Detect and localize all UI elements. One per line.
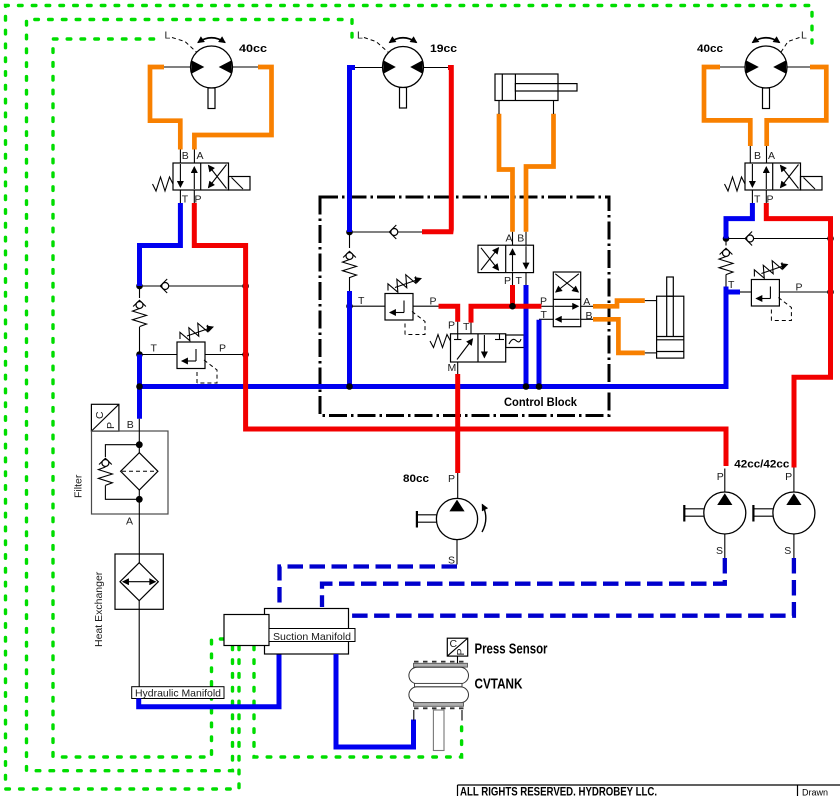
Suction Manifold label box — [269, 629, 355, 643]
hydraulic motor 40cc — [697, 29, 807, 108]
motor shaft — [208, 88, 215, 109]
svg-text:P: P — [796, 282, 803, 294]
svg-text:Drawn: Drawn — [802, 788, 828, 796]
CVTANK upper bellows — [409, 667, 469, 683]
hose: main return line (blue) — [140, 287, 727, 387]
hose: right motor loop B side (orange) — [704, 67, 750, 146]
svg-text:S: S — [784, 545, 791, 557]
hose: 19cc riser to main return (blue) — [347, 291, 352, 387]
directional valve V5 (vertical cylinder) — [553, 272, 580, 327]
drain line L1 (left 40cc motor to suction manifold small box) — [53, 39, 224, 757]
C1 port lines — [498, 101, 500, 115]
wire: right spring-check riser — [725, 239, 727, 246]
svg-text:Suction Manifold: Suction Manifold — [273, 631, 351, 643]
svg-text:P: P — [219, 343, 226, 355]
svg-text:B: B — [754, 150, 761, 162]
svg-text:P: P — [430, 296, 437, 308]
hose: V5 A to vertical cylinder top (orange) — [593, 301, 645, 307]
suction manifold box — [265, 609, 349, 655]
CVTANK top bolt marks — [414, 661, 466, 663]
hose: left motor loop A side (orange) — [194, 67, 271, 150]
svg-text:T: T — [151, 343, 158, 355]
spring check valve SC1 (left) — [133, 300, 147, 326]
hose: 19cc motor right down (red) — [422, 68, 451, 232]
wire: heat exchanger to hydraulic manifold — [138, 601, 140, 687]
CVTANK middle ring — [415, 683, 463, 686]
svg-text:B: B — [182, 150, 189, 162]
pressure sensor CP2 (CVTANK) — [447, 638, 467, 656]
svg-text:B: B — [127, 419, 134, 431]
node: RV3 P junction on red — [827, 289, 834, 296]
hose: RV3 T stub (blue) — [726, 290, 740, 295]
wire: left 40cc motor port lines — [164, 66, 191, 68]
hose: horizontal cylinder right port to V3 B (orange) — [526, 114, 554, 232]
V1 port stub lines — [179, 150, 181, 164]
hose: suction manifold to CVTANK (blue) — [336, 654, 414, 747]
hose: V1 T to left riser (blue) — [140, 203, 181, 286]
svg-text:T: T — [754, 193, 761, 205]
check valve CV2 line (19cc circuit) — [350, 231, 423, 233]
node: main return / V3 T — [523, 383, 530, 390]
node: red/check junction left — [242, 283, 249, 290]
hose: V5 B to vertical cylinder bottom (orange) — [593, 319, 645, 353]
svg-text:P: P — [785, 471, 792, 483]
node: RV1 T junction — [136, 351, 143, 358]
control block dash-dot border — [320, 197, 609, 416]
hydraulic motor 40cc — [165, 29, 268, 108]
node: main return / V5 T — [536, 383, 543, 390]
svg-text:P: P — [455, 648, 467, 655]
hose: right motor loop A side (orange) — [767, 67, 827, 146]
svg-text:B: B — [586, 310, 593, 322]
CVTANK lower bellows — [409, 687, 469, 703]
svg-text:T: T — [516, 275, 523, 287]
heat exchanger HX1 — [115, 554, 163, 609]
V2 port stub lines — [749, 146, 751, 163]
svg-text:M: M — [448, 362, 457, 374]
svg-text:P: P — [448, 320, 455, 332]
check valve CV1 line (left circuit) — [140, 285, 246, 287]
drain line CVTANK (suction manifold to CVTANK bottom port) — [254, 646, 462, 757]
svg-text:Press Sensor: Press Sensor — [475, 641, 548, 658]
hose: V3 T to main return (blue) — [524, 285, 529, 387]
node: main return at left corner — [136, 383, 143, 390]
svg-text:L: L — [801, 29, 807, 41]
wire: filter A to heat exchanger — [138, 514, 140, 563]
check valve CV3 line (right circuit) — [726, 238, 831, 240]
bidirectional rotation arrow — [753, 38, 780, 43]
CVTANK bottom bolt marks — [414, 707, 464, 709]
hydraulic motor 19cc — [357, 29, 457, 108]
C2 port lines — [645, 300, 657, 302]
svg-text:Control Block: Control Block — [504, 397, 578, 409]
svg-text:P: P — [717, 471, 724, 483]
node: 19cc blue junction — [346, 229, 353, 236]
svg-text:A: A — [126, 516, 133, 528]
proportional valve V4 (pump control, port M) — [430, 334, 524, 362]
node: RV2 T junction on blue — [346, 303, 353, 310]
drain dashed connection — [781, 38, 800, 53]
title block — [458, 784, 840, 796]
hose: hydraulic manifold to suction manifold (blue) — [139, 654, 279, 707]
node: main return / 19cc riser — [346, 383, 353, 390]
hose: left riser relief to filter B (blue) — [137, 355, 142, 419]
svg-text:C: C — [94, 411, 106, 419]
svg-text:S: S — [716, 545, 723, 557]
RV1 T/P wires and labels — [140, 354, 178, 356]
node: RV1 P junction on red — [242, 351, 249, 358]
svg-text:Filter: Filter — [73, 474, 85, 498]
relief valve RV1 (left circuit) — [177, 320, 217, 383]
hydraulic cylinder C1 (horizontal) — [495, 74, 577, 101]
relief valve RV3 (right circuit) — [751, 257, 791, 320]
svg-text:ALL RIGHTS RESERVED. HYDROBEY: ALL RIGHTS RESERVED. HYDROBEY LLC. — [460, 784, 657, 796]
motor shaft — [400, 88, 407, 109]
node: pressure gallery junction — [509, 303, 516, 310]
hose: V2 T to right riser (blue) — [726, 203, 752, 239]
svg-text:T: T — [463, 321, 470, 333]
svg-text:P: P — [504, 275, 511, 287]
svg-text:A: A — [197, 150, 204, 162]
drain dashed connection — [172, 38, 197, 53]
P1 rotation arrow — [482, 505, 486, 533]
svg-text:T: T — [728, 279, 735, 291]
svg-text:P: P — [105, 422, 117, 429]
svg-text:Hydraulic Manifold: Hydraulic Manifold — [135, 687, 221, 699]
hose: V4 M to 80cc pump P (red) — [455, 374, 460, 473]
node: right red junction — [827, 235, 834, 242]
hose: V5 T to main return (blue) — [537, 320, 542, 387]
solenoid valve V3 (horizontal cylinder) — [478, 245, 534, 272]
suction manifold side box — [224, 615, 269, 646]
hose: horizontal cylinder left port to V3 A (orange) — [499, 114, 513, 232]
filter F1 — [92, 419, 169, 514]
svg-text:L: L — [165, 29, 171, 41]
CVTANK top plate — [414, 663, 468, 667]
CP2 connection wire — [457, 656, 459, 663]
wire: 19cc motor port lines — [355, 67, 383, 69]
svg-text:40cc: 40cc — [697, 43, 723, 55]
CVTANK port lines — [413, 710, 415, 721]
svg-text:L: L — [357, 29, 363, 41]
wire: right 40cc motor port lines — [720, 66, 746, 68]
relief valve RV2 (19cc circuit) — [385, 271, 425, 334]
pump P1 80cc — [416, 473, 477, 567]
svg-text:C: C — [450, 638, 458, 650]
svg-text:42cc/42cc: 42cc/42cc — [734, 459, 789, 471]
P2/P3 port wires — [724, 469, 726, 493]
pressure sensor CP1 (filter) — [91, 404, 119, 431]
hose: V2 P to right red riser (red) — [766, 203, 830, 468]
wire: 19cc spring-check riser — [349, 232, 351, 248]
V3 port stubs — [512, 232, 514, 246]
svg-text:T: T — [358, 295, 365, 307]
svg-text:Heat Exchanger: Heat Exchanger — [93, 571, 105, 647]
svg-text:CVTANK: CVTANK — [475, 676, 523, 693]
svg-text:B: B — [517, 233, 524, 245]
pump P3 42cc — [753, 471, 815, 557]
pump P2 42cc — [684, 471, 746, 557]
wire: left spring-check riser — [139, 286, 141, 298]
P1 port wires — [457, 473, 459, 499]
spring check valve SC3 (right) — [719, 248, 733, 274]
hose: V4 T to pressure gallery (red) — [471, 306, 541, 322]
V5 port stubs — [541, 305, 553, 307]
node: blue/check junction left — [136, 283, 143, 290]
check valve CV1 — [160, 279, 169, 293]
CVTANK center pipe — [433, 710, 444, 751]
hose: left motor loop B side (orange) — [150, 67, 180, 150]
drain dashed connection — [364, 38, 389, 53]
V4 port stubs — [457, 322, 459, 334]
hose: RV2 P to V4 P (red) — [439, 306, 458, 322]
solenoid valve V1 (left 40cc motor) — [153, 163, 251, 191]
Hydraulic Manifold label box — [132, 687, 224, 700]
svg-text:19cc: 19cc — [430, 43, 457, 55]
hydraulic cylinder C2 (vertical) — [657, 277, 684, 358]
svg-text:80cc: 80cc — [403, 473, 429, 485]
svg-text:A: A — [506, 233, 513, 245]
hose: V3 P drop (red) — [510, 285, 515, 306]
bidirectional rotation arrow — [390, 38, 417, 43]
hose: 19cc motor left to control block (blue) — [350, 68, 356, 233]
hose: V1 P to left red riser (red) — [194, 203, 726, 466]
motor shaft — [763, 88, 770, 109]
suction line P2 S to manifold (dashed blue) — [322, 558, 725, 607]
node: right blue junction — [723, 235, 730, 242]
svg-text:40cc: 40cc — [239, 43, 267, 55]
svg-text:P: P — [448, 473, 455, 485]
spring check valve SC2 (19cc) — [343, 251, 357, 277]
solenoid valve V2 (right 40cc motor) — [725, 163, 823, 191]
suction line P3 S to manifold (dashed blue) — [349, 558, 794, 616]
svg-text:A: A — [768, 150, 775, 162]
drain line L2 (19cc motor to tank manifold) — [27, 20, 353, 771]
suction line P1 S to manifold (dashed blue) — [280, 567, 458, 608]
bidirectional rotation arrow — [198, 38, 225, 43]
CVTANK bottom plate — [414, 703, 464, 707]
